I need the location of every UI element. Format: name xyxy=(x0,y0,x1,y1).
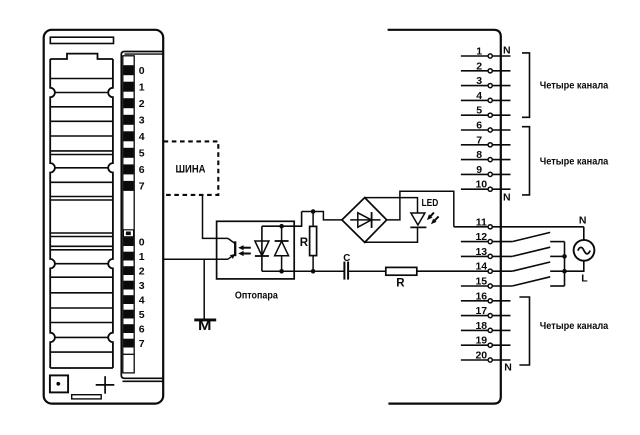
svg-text:11: 11 xyxy=(476,216,487,228)
svg-text:4: 4 xyxy=(139,294,145,306)
svg-text:1: 1 xyxy=(139,251,145,263)
svg-text:19: 19 xyxy=(475,335,487,347)
svg-text:15: 15 xyxy=(475,276,487,288)
svg-text:Четыре канала: Четыре канала xyxy=(540,79,609,91)
svg-text:17: 17 xyxy=(475,305,487,317)
svg-text:Оптопара: Оптопара xyxy=(235,290,278,302)
svg-text:13: 13 xyxy=(475,246,487,258)
svg-text:3: 3 xyxy=(139,115,145,127)
svg-text:L: L xyxy=(581,273,588,285)
svg-text:3: 3 xyxy=(476,75,482,87)
svg-text:8: 8 xyxy=(476,149,482,161)
svg-text:9: 9 xyxy=(476,164,482,176)
svg-text:5: 5 xyxy=(139,309,145,321)
svg-text:ШИНА: ШИНА xyxy=(176,163,206,175)
svg-text:5: 5 xyxy=(476,105,482,117)
svg-text:0: 0 xyxy=(139,65,145,77)
svg-text:LED: LED xyxy=(422,197,439,209)
svg-text:7: 7 xyxy=(476,134,482,146)
svg-text:6: 6 xyxy=(139,323,145,335)
svg-text:7: 7 xyxy=(139,181,145,193)
svg-text:0: 0 xyxy=(139,236,145,248)
svg-text:3: 3 xyxy=(139,280,145,292)
svg-text:1: 1 xyxy=(476,46,482,58)
svg-text:N: N xyxy=(503,191,511,203)
svg-text:C: C xyxy=(343,253,350,264)
svg-text:Четыре канала: Четыре канала xyxy=(540,155,609,167)
svg-text:М: М xyxy=(198,318,212,333)
svg-text:R: R xyxy=(396,278,405,290)
svg-text:6: 6 xyxy=(476,120,482,132)
svg-text:N: N xyxy=(504,362,512,374)
svg-text:2: 2 xyxy=(476,60,482,72)
svg-text:16: 16 xyxy=(475,290,487,302)
svg-text:R: R xyxy=(300,237,309,249)
svg-text:N: N xyxy=(579,215,587,227)
svg-text:12: 12 xyxy=(475,231,487,243)
svg-text:20: 20 xyxy=(475,350,487,362)
svg-text:14: 14 xyxy=(475,261,487,273)
svg-text:10: 10 xyxy=(475,179,487,191)
svg-text:Четыре канала: Четыре канала xyxy=(540,320,609,332)
svg-text:6: 6 xyxy=(139,164,145,176)
svg-text:2: 2 xyxy=(139,265,145,277)
svg-text:N: N xyxy=(503,44,511,56)
svg-text:18: 18 xyxy=(475,320,487,332)
svg-text:4: 4 xyxy=(476,90,482,102)
svg-text:7: 7 xyxy=(139,338,145,350)
svg-text:5: 5 xyxy=(139,148,145,160)
svg-text:2: 2 xyxy=(139,98,145,110)
svg-text:4: 4 xyxy=(139,131,145,143)
svg-text:1: 1 xyxy=(139,82,145,94)
